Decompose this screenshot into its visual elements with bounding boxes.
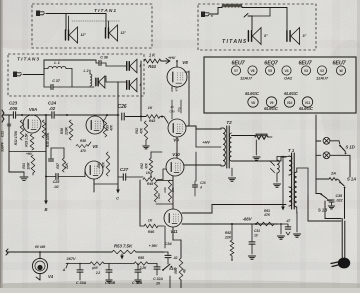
svg-text:1K: 1K <box>146 171 151 175</box>
svg-text:8": 8" <box>303 34 307 38</box>
arrow (T1 lead) <box>282 156 284 205</box>
svg-text:47K: 47K <box>145 162 149 169</box>
feedback network C-R (V5 lower) <box>51 147 64 149</box>
cabinet box TITAN 5 <box>198 4 316 50</box>
svg-text:47K: 47K <box>110 124 114 131</box>
tube socket V11 <box>302 97 312 107</box>
svg-text:R53 7.5K: R53 7.5K <box>114 244 133 249</box>
svg-text:C26: C26 <box>118 104 127 110</box>
wire <box>345 155 350 171</box>
svg-text:OA2: OA2 <box>284 76 293 81</box>
tube V9 <box>168 119 186 137</box>
svg-text:R43: R43 <box>149 119 155 123</box>
input jack J2 (Titan 3) <box>13 72 17 78</box>
svg-text:V11: V11 <box>170 229 178 234</box>
svg-text:R55: R55 <box>138 256 144 260</box>
svg-text:12": 12" <box>121 31 127 35</box>
wire V9-V10 link <box>176 137 178 158</box>
svg-text:R49: R49 <box>163 187 167 193</box>
svg-text:+ 36V: + 36V <box>149 244 158 248</box>
wire <box>349 171 351 177</box>
wire <box>330 140 339 142</box>
wire <box>65 14 67 31</box>
svg-text:R46: R46 <box>148 230 155 234</box>
svg-text:R45: R45 <box>147 182 154 186</box>
wire T2 secondary top <box>232 135 256 137</box>
wire mains run <box>325 201 341 219</box>
wire grid V11 <box>139 180 141 226</box>
svg-text:S 1A: S 1A <box>347 177 356 182</box>
wire <box>158 169 166 180</box>
wire heater <box>6 249 8 255</box>
svg-text:6L6GC: 6L6GC <box>245 91 260 96</box>
svg-text:22K: 22K <box>224 236 232 240</box>
pilot lamp DS1 <box>323 137 330 144</box>
svg-text:C22: C22 <box>1 131 5 137</box>
tube socket W <box>336 66 345 75</box>
svg-text:V4: V4 <box>285 69 289 73</box>
cabinet box TITAN 1 <box>32 4 152 48</box>
wire <box>125 116 145 118</box>
svg-text:+HV: +HV <box>26 152 33 156</box>
wire V10-V11 link <box>172 176 174 209</box>
wires T1 secondary <box>296 168 298 172</box>
wire to power panel <box>315 115 317 179</box>
svg-text:S 1B: S 1B <box>318 208 328 213</box>
svg-text:1K: 1K <box>148 219 153 223</box>
switch S1A <box>339 181 341 183</box>
wire left rail <box>9 151 46 153</box>
wire <box>209 8 222 15</box>
svg-text:T I T A N 3: T I T A N 3 <box>17 57 39 63</box>
mains plug <box>338 258 350 269</box>
wire <box>276 173 278 182</box>
svg-text:.005: .005 <box>9 106 18 111</box>
svg-text:V9: V9 <box>173 138 179 143</box>
wire <box>55 114 119 116</box>
tube socket V4 <box>282 66 291 75</box>
ground (output) <box>296 212 298 232</box>
svg-text:V9: V9 <box>270 101 274 105</box>
speaker SP2 12in <box>105 28 107 38</box>
speaker SP5 8in <box>126 81 128 90</box>
svg-text:T I T A N 5: T I T A N 5 <box>222 39 246 45</box>
wire B feed <box>45 115 47 199</box>
input jack J1 (Titan 1) <box>36 11 40 17</box>
svg-text:R35 100K: R35 100K <box>46 132 50 147</box>
svg-text:267V: 267V <box>66 256 76 261</box>
svg-text:V5: V5 <box>92 144 98 149</box>
svg-text:R44: R44 <box>148 64 156 69</box>
ground (C31) <box>248 256 255 259</box>
wire <box>274 223 281 225</box>
wire to plug <box>341 219 343 259</box>
speaker SP4 8in <box>126 62 128 71</box>
ground (C35) <box>328 206 334 209</box>
svg-text:V4: V4 <box>48 274 54 279</box>
input terminal <box>2 110 4 122</box>
svg-text:V8: V8 <box>251 101 255 105</box>
svg-text:1 K: 1 K <box>149 53 156 58</box>
svg-text:R48: R48 <box>170 86 174 92</box>
tube socket V6 <box>248 66 257 75</box>
wire <box>46 13 106 15</box>
svg-text:V6: V6 <box>251 69 255 73</box>
tube V5B upper <box>86 116 104 134</box>
svg-text:C24: C24 <box>48 101 57 106</box>
svg-text:1K: 1K <box>148 106 153 110</box>
wire V11 cathode <box>172 227 174 240</box>
tube complement box <box>204 57 356 113</box>
svg-text:C31: C31 <box>254 229 260 233</box>
speaker SP3 5in <box>95 78 97 86</box>
switch S1D <box>339 145 341 147</box>
svg-text:C: C <box>116 196 119 201</box>
tube V5B lower <box>85 161 103 179</box>
svg-text:A: A <box>62 268 66 272</box>
svg-text:R52: R52 <box>225 231 231 235</box>
svg-text:6L6GC: 6L6GC <box>284 91 299 96</box>
svg-text:100K: 100K <box>27 162 31 170</box>
svg-text:+HV: +HV <box>168 56 176 60</box>
svg-text:R37: R37 <box>56 163 60 169</box>
svg-text:C 33A: C 33A <box>76 281 87 285</box>
wire <box>9 171 24 173</box>
wire tick <box>244 14 248 18</box>
wire <box>160 117 168 124</box>
svg-text:.022: .022 <box>336 199 344 203</box>
svg-text:C 32A: C 32A <box>153 277 163 281</box>
primary feed winding <box>277 160 279 173</box>
svg-text:10: 10 <box>254 234 258 238</box>
tube socket V3 <box>301 66 310 75</box>
svg-text:+HV: +HV <box>202 140 210 145</box>
tube socket V7 <box>231 66 240 75</box>
svg-text:C35: C35 <box>336 194 344 198</box>
capacitor C33A <box>77 270 83 272</box>
wire V10 plate to T2 <box>184 164 221 166</box>
speaker SP1 12in <box>65 30 67 40</box>
wire <box>255 140 257 155</box>
wire <box>117 82 119 187</box>
ground (T1 primary) <box>273 184 280 187</box>
svg-text:V8: V8 <box>182 60 188 65</box>
wire <box>23 74 44 76</box>
speaker SP7 8in <box>286 31 288 42</box>
svg-text:V5: V5 <box>268 69 272 73</box>
svg-text:6V #49: 6V #49 <box>35 245 45 249</box>
inductor L3 (choke) <box>222 5 242 7</box>
wire V11 plate to T1 <box>182 205 286 214</box>
node +HV <box>161 60 169 62</box>
wire <box>105 63 107 66</box>
capacitor C32A <box>154 267 160 269</box>
wire <box>72 20 120 22</box>
tube socket V8 <box>248 97 258 107</box>
svg-text:12": 12" <box>81 33 87 37</box>
wire <box>106 81 126 83</box>
svg-text:470: 470 <box>175 86 179 92</box>
svg-text:470: 470 <box>79 149 86 153</box>
wire <box>140 61 142 117</box>
wire -66V rail <box>182 223 278 225</box>
svg-text:R51: R51 <box>264 209 270 213</box>
svg-text:C34: C34 <box>164 241 172 246</box>
svg-text:R42: R42 <box>140 163 144 169</box>
wire V9 plate to T2 <box>186 126 221 129</box>
svg-text:6EU7: 6EU7 <box>332 61 346 67</box>
input jack J3 (Titan 5) <box>201 12 205 18</box>
svg-text:V7: V7 <box>234 69 238 73</box>
svg-text:4K: 4K <box>183 268 187 274</box>
wire <box>44 60 96 75</box>
svg-text:R34: R34 <box>22 163 26 169</box>
switch S1C <box>162 269 164 271</box>
pilot light V4 <box>39 252 41 259</box>
svg-text:R33 1.5K: R33 1.5K <box>25 133 29 147</box>
svg-text:C25: C25 <box>53 180 61 184</box>
svg-text:T2: T2 <box>226 120 232 125</box>
svg-text:C27: C27 <box>120 167 129 172</box>
ground (V5A cathode) <box>20 177 28 181</box>
speaker SP6 8in <box>247 31 249 42</box>
capacitor C33B <box>106 270 112 272</box>
node B arrow <box>121 254 123 258</box>
svg-text:S 1D: S 1D <box>345 145 355 150</box>
svg-text:47K: 47K <box>140 127 144 134</box>
switch S1B <box>320 193 322 195</box>
svg-text:V5A: V5A <box>29 107 37 112</box>
svg-text:S1C: S1C <box>169 267 176 271</box>
bias row wire <box>66 263 90 265</box>
svg-text:V2: V2 <box>320 69 324 73</box>
svg-text:V11: V11 <box>305 101 311 105</box>
svg-text:R38: R38 <box>80 139 86 143</box>
svg-text:330PF: 330PF <box>1 141 5 152</box>
node C <box>117 187 119 192</box>
svg-text:V10: V10 <box>172 152 180 157</box>
svg-text:47K: 47K <box>102 161 106 168</box>
svg-text:2.2: 2.2 <box>95 271 100 275</box>
svg-text:6L6GC: 6L6GC <box>299 106 314 111</box>
svg-text:.02: .02 <box>49 106 56 111</box>
svg-text:C23: C23 <box>9 101 18 106</box>
svg-text:C28: C28 <box>200 181 206 185</box>
svg-text:V10: V10 <box>287 101 293 105</box>
node B <box>45 199 47 203</box>
wire <box>242 7 287 9</box>
tube socket V10 <box>284 97 294 107</box>
ground (bias) <box>280 224 282 234</box>
svg-text:220K: 220K <box>65 127 69 136</box>
svg-text:12AU7: 12AU7 <box>240 76 253 81</box>
ground (R41) <box>140 117 142 122</box>
lamp DS2 <box>323 152 330 159</box>
cabinet box TITAN 3 <box>8 54 144 96</box>
resistor R47 <box>255 135 268 139</box>
svg-text:20: 20 <box>155 282 160 286</box>
svg-text:47K: 47K <box>263 213 271 217</box>
svg-text:22K: 22K <box>65 162 69 169</box>
svg-text:T 1: T 1 <box>288 148 295 153</box>
wire <box>169 276 171 288</box>
svg-text:8": 8" <box>264 34 268 38</box>
tube socket V2 <box>317 66 326 75</box>
svg-text:12AU7: 12AU7 <box>316 76 329 81</box>
svg-text:6L6GC: 6L6GC <box>264 106 279 111</box>
svg-text:C 37: C 37 <box>52 79 61 83</box>
svg-text:L 1: L 1 <box>54 60 60 65</box>
wire screen feed <box>195 152 197 181</box>
svg-text:B: B <box>45 207 48 212</box>
wire T2 secondary bottom to T1 <box>232 157 287 161</box>
tube socket V9 <box>266 97 276 107</box>
svg-text:V3: V3 <box>304 69 308 73</box>
svg-text:2A: 2A <box>330 171 336 176</box>
ground (T2) <box>253 157 260 160</box>
svg-text:-66V: -66V <box>243 217 253 222</box>
svg-text:R36: R36 <box>60 128 64 134</box>
wire <box>188 71 190 126</box>
svg-text:R32 470K: R32 470K <box>14 130 18 145</box>
svg-text:6EQ7: 6EQ7 <box>264 61 278 67</box>
wire <box>17 114 51 116</box>
tube socket V5 <box>265 66 274 75</box>
capacitor C32B <box>135 270 141 272</box>
wire row2 <box>93 179 95 192</box>
svg-text:6EU7: 6EU7 <box>231 61 245 67</box>
svg-text:.02: .02 <box>173 256 178 260</box>
wire <box>105 14 107 29</box>
tube V11 <box>164 209 182 227</box>
svg-text:R41: R41 <box>135 128 139 134</box>
wire <box>3 114 12 116</box>
svg-text:C 36: C 36 <box>100 56 109 60</box>
wire to S1B <box>316 179 320 194</box>
wire feed <box>316 140 321 142</box>
